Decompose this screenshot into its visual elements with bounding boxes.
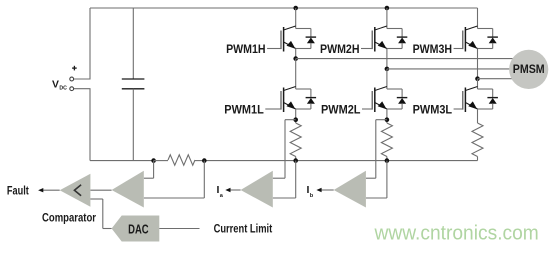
wire shunt1 top sense [285,119,296,121]
Vdc positive lead wire [74,78,91,80]
Vdc terminal - circle [70,87,74,91]
arrow Ib [316,188,321,192]
shunt resistor R2 [381,123,392,156]
wire shunt 2 to rail [386,157,388,161]
wire emitter Q3L to shunt [477,109,479,123]
gate wire Q2H [361,48,372,50]
node shunt 1 top sense tap [293,117,298,122]
node shunt 2 rail junction [385,158,390,163]
node phase 1 top rail junction [293,6,298,11]
wire collector Q2H [386,8,388,29]
bottom DC return rail left segment [90,160,154,162]
node DC shunt right [202,158,207,163]
node shunt 1 rail junction [293,158,298,163]
node phase 2 midpoint [385,67,390,72]
svg-text:PWM2H: PWM2H [320,42,360,56]
gate wire Q1H [267,48,281,50]
plus sign [73,66,75,71]
gate wire Q3L [454,108,463,110]
arrow fault [38,188,43,192]
wire collector Q3H [477,8,479,29]
op-amp U3 phase B sense [334,171,366,208]
wire DAC to current limit [159,228,199,230]
node phase 2 top rail junction [385,6,390,11]
wire shunt 3 to rail [477,157,479,161]
transistor Q1L [281,87,316,113]
wire emitter Q2H to midpoint [386,49,388,69]
svg-text:PWM1L: PWM1L [224,102,264,116]
wire shunt2 top sense [376,119,387,121]
wire comparator to DAC [90,198,102,200]
svg-text:PWM3H: PWM3H [413,42,453,56]
transistor Q3H [463,26,498,52]
svg-text:PMSM: PMSM [513,62,545,76]
wire collector Q2L [386,69,388,89]
wire shunt2 bottom sense [386,161,388,198]
PMSM motor [509,50,548,89]
node phase 1 midpoint [293,56,298,61]
Vdc negative lead wire [74,88,91,90]
wire shunt 1 to rail [295,157,297,161]
comparator U4 [60,174,91,207]
wire emitter Q3H to midpoint [477,49,479,79]
arrow Ia [225,188,230,192]
svg-text:PWM1H: PWM1H [226,42,266,56]
gate wire Q1L [265,108,281,110]
wire DC shunt right sense [203,161,205,198]
Vdc terminal + circle [70,77,74,81]
wire emitter Q2L to shunt [386,109,388,123]
op-amp U2 phase A sense [241,171,273,208]
wire amp U1 output to comparator [90,189,111,191]
transistor Q2L [372,87,407,113]
wire collector Q3L [477,79,479,89]
wire collector Q1L [295,59,297,89]
svg-text:DC: DC [59,86,67,92]
DC-link shunt resistor [154,160,168,162]
svg-text:V: V [52,79,59,90]
svg-text:PWM2L: PWM2L [321,102,361,116]
shunt resistor R1 [290,123,301,156]
DAC block [112,216,160,242]
wire emitter Q1L to shunt [295,109,297,123]
capacitor C1 [122,8,145,161]
wire emitter Q1H to midpoint [295,49,297,59]
wire DC shunt left sense [153,161,155,179]
transistor Q3L [463,87,498,113]
node DC shunt left [151,158,156,163]
wire fault output [43,189,60,191]
wire phase A to motor [296,58,514,60]
svg-text:Comparator: Comparator [42,210,96,224]
svg-text:PWM3L: PWM3L [413,102,453,116]
svg-text:Current Limit: Current Limit [214,221,273,235]
comparator less-than symbol [74,185,81,196]
node shunt 2 top sense tap [385,117,390,122]
svg-text:DAC: DAC [128,221,149,236]
wire Ib output [321,189,334,191]
shunt resistor R3 [472,123,483,156]
svg-text:www.cntronics.com: www.cntronics.com [374,222,539,245]
wire shunt1 bottom sense [295,161,297,198]
wire phase C to motor [478,78,515,80]
gate wire Q2L [362,108,372,110]
node phase 3 midpoint [475,76,480,81]
svg-text:Fault: Fault [7,183,29,197]
wire collector Q1H [295,8,297,29]
op-amp U1 DC-link sense [112,171,144,208]
gate wire Q3H [454,48,463,50]
transistor Q1H [281,26,316,52]
bottom rail mid segment [204,160,477,162]
wire phase B to motor [387,68,514,70]
wire Ia output [230,189,241,191]
transistor Q2H [372,26,407,52]
svg-text:b: b [310,193,314,199]
top DC bus rail [90,7,478,9]
